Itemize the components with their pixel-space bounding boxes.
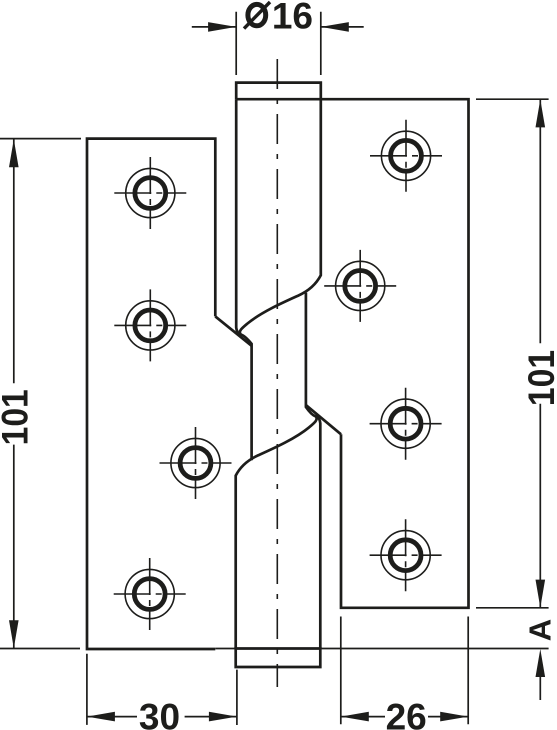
hole R3 crosshair	[370, 388, 442, 460]
dia16 left arrow	[208, 22, 236, 32]
30 left arrow	[87, 712, 115, 722]
right leaf outline	[236, 99, 468, 608]
hole R3 circles	[381, 399, 430, 448]
dimension text dia16: diameter symbol	[244, 2, 270, 29]
hole L2 crosshair	[114, 289, 186, 361]
26 right arrow	[440, 712, 468, 722]
left 101 bottom arrow	[9, 620, 19, 648]
hole L4 crosshair	[114, 558, 186, 630]
hole R1 crosshair	[370, 120, 442, 192]
hole L1 crosshair	[114, 157, 186, 229]
barrel vertical centerline	[276, 59, 278, 687]
left 101 top arrow	[9, 139, 19, 167]
hole R1 circles	[381, 131, 430, 180]
right 101 top extension line	[476, 98, 549, 100]
hole R4 crosshair	[370, 519, 442, 591]
30 right arrow	[209, 712, 237, 722]
svg-text:30: 30	[139, 697, 180, 730]
left leaf outline	[87, 139, 215, 649]
hole L2 circles	[126, 301, 175, 350]
barrel bottom cap	[236, 649, 321, 668]
right leaf knuckle diagonal	[306, 405, 341, 434]
hole L3 crosshair	[160, 427, 232, 499]
hole L1 circles	[126, 168, 175, 217]
A dimension tail	[539, 676, 541, 700]
right 101 dimension line	[539, 99, 541, 607]
upper barrel right edge, helix S-curve and middle left edge	[240, 99, 321, 460]
right 101 top arrow	[536, 99, 546, 127]
svg-text:16: 16	[272, 0, 313, 37]
upper barrel left edge with merge bend	[236, 99, 241, 335]
dia16 right arrow	[321, 22, 349, 32]
left leaf knuckle diagonal	[215, 316, 251, 345]
26 left arrow	[341, 712, 369, 722]
svg-text:A: A	[523, 619, 557, 641]
hole R2 circles	[336, 261, 385, 310]
hole L3 circles	[171, 438, 220, 487]
30 dimension line	[87, 716, 237, 718]
dia16 dimension line	[192, 26, 364, 28]
left 101 top extension line	[0, 138, 81, 140]
30 extension lines	[87, 654, 237, 725]
26 dimension line	[341, 716, 468, 718]
svg-text:101: 101	[522, 350, 557, 406]
barrel top cap	[236, 83, 321, 100]
26 extension lines	[341, 617, 468, 725]
right 101 bottom arrow	[536, 580, 546, 608]
A dimension up arrow	[536, 649, 546, 677]
right 101 bottom extension line	[476, 607, 549, 609]
left 101 dimension line	[13, 139, 15, 648]
hole R2 crosshair	[324, 250, 396, 322]
lower barrel right edge with merge bend	[316, 415, 321, 648]
lower barrel left edge, helix S-curve and middle right edge	[236, 293, 317, 649]
dia16 extension lines	[236, 12, 321, 75]
hole L4 circles	[125, 569, 174, 618]
hole R4 circles	[381, 531, 430, 580]
svg-text:26: 26	[386, 697, 427, 730]
svg-text:101: 101	[0, 389, 36, 445]
baseline extension y=648.5	[0, 648, 549, 650]
